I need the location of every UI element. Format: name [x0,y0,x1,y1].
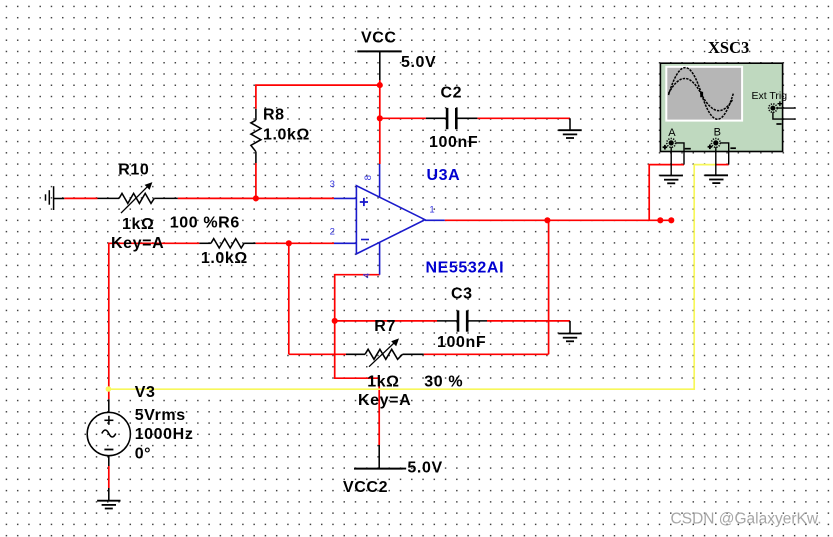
svg-text:5Vrms: 5Vrms [135,407,186,424]
svg-text:1kΩ: 1kΩ [122,216,154,233]
svg-text:100nF: 100nF [429,134,478,151]
svg-text:Key=A: Key=A [358,392,411,409]
svg-text:-5.0V: -5.0V [402,460,443,477]
svg-text:4: 4 [361,273,372,278]
svg-text:VCC2: VCC2 [343,479,388,496]
svg-text:30 %: 30 % [424,374,463,391]
svg-text:R10: R10 [118,162,149,179]
svg-text:Key=A: Key=A [111,235,164,252]
svg-text:1kΩ: 1kΩ [367,374,399,391]
svg-text:V3: V3 [135,384,156,401]
svg-text:XSC3: XSC3 [708,38,749,57]
svg-text:VCC: VCC [361,29,397,46]
svg-text:100 %R6: 100 %R6 [170,215,240,232]
svg-text:5.0V: 5.0V [401,54,436,71]
svg-text:1.0kΩ: 1.0kΩ [201,250,248,267]
svg-text:A: A [668,127,676,139]
svg-text:U3A: U3A [427,167,461,184]
svg-text:R8: R8 [263,107,285,124]
svg-text:0°: 0° [135,445,152,462]
svg-text:1: 1 [429,205,434,216]
svg-text:B: B [714,127,721,139]
svg-text:NE5532AI: NE5532AI [426,260,505,277]
svg-text:C2: C2 [441,85,463,102]
svg-text:2: 2 [330,227,335,238]
svg-text:1.0kΩ: 1.0kΩ [263,127,310,144]
svg-text:R7: R7 [374,318,396,335]
svg-text:C3: C3 [451,286,473,303]
svg-text:CSDN @GalaxyerKw.: CSDN @GalaxyerKw. [671,511,822,528]
svg-text:8: 8 [363,175,374,180]
svg-text:3: 3 [330,179,335,190]
svg-text:Ext Trig: Ext Trig [752,90,788,102]
svg-text:1000Hz: 1000Hz [135,426,194,443]
svg-text:100nF: 100nF [437,334,486,351]
